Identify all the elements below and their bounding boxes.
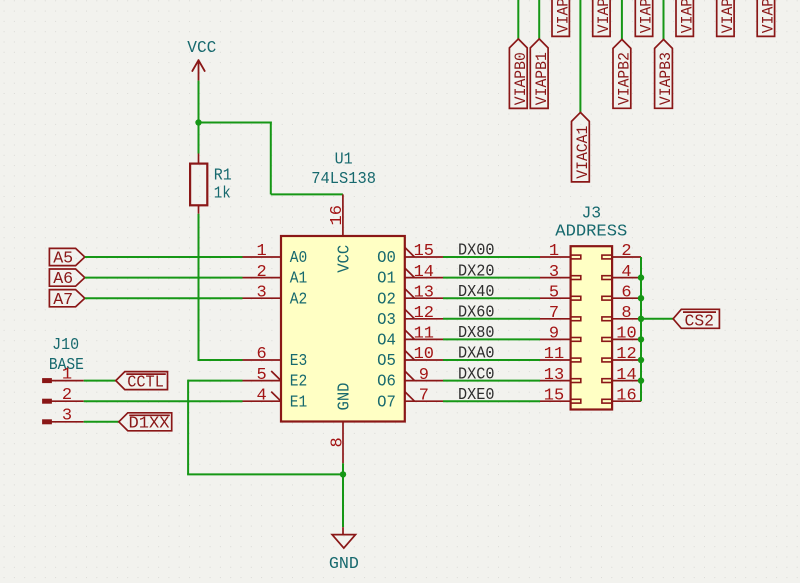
J10 pin 3 <box>43 407 84 426</box>
J3 pin 14 <box>602 366 641 385</box>
wire U1 output to J3 (DX80) <box>443 338 540 340</box>
net label DXA0 <box>458 345 495 364</box>
U1 pin 1 (A0) <box>243 242 282 261</box>
svg-text:A6: A6 <box>53 270 73 289</box>
global label VIAPB3 (cut off at top) <box>676 0 696 36</box>
wire junction to R1 <box>198 123 200 154</box>
wire J10 pin 1 to CCTL <box>84 380 116 382</box>
global label D1XX <box>119 413 172 434</box>
svg-text:13: 13 <box>544 366 564 385</box>
global label VIAPB1 (cut off at top) <box>593 0 613 36</box>
net label DXC0 <box>458 365 495 384</box>
U1 reference label <box>335 151 353 170</box>
svg-text:2: 2 <box>621 242 631 261</box>
svg-text:10: 10 <box>616 325 636 344</box>
svg-text:12: 12 <box>616 345 636 364</box>
global label VIAPB2 (cut off at top) <box>635 0 655 36</box>
net label DX80 <box>458 324 495 343</box>
net label DXE0 <box>458 386 495 405</box>
svg-text:6: 6 <box>256 345 266 364</box>
svg-text:CCTL: CCTL <box>127 374 164 393</box>
svg-text:3: 3 <box>256 283 266 302</box>
svg-text:1: 1 <box>256 242 266 261</box>
ground <box>329 527 359 574</box>
global label VIAPB4 (cut off at top) <box>717 0 737 36</box>
U1 pin 10 (O5) <box>405 345 443 364</box>
J3 pin 12 <box>602 345 641 364</box>
svg-text:4: 4 <box>256 386 266 405</box>
svg-text:16: 16 <box>328 205 347 225</box>
global label A5 <box>49 248 84 268</box>
svg-text:9: 9 <box>549 325 559 344</box>
global label VIAPB5 (cut off at top) <box>757 0 777 36</box>
U1 pin name GND <box>335 383 354 411</box>
svg-text:74LS138: 74LS138 <box>311 170 376 189</box>
svg-text:11: 11 <box>544 345 564 364</box>
wire A7 to U1 <box>85 297 243 299</box>
global label VIACA1 <box>572 112 593 181</box>
wire to VIACA1 <box>579 0 581 112</box>
J10 pin 1 <box>43 365 84 384</box>
U1 pin 5 (E2) <box>243 366 282 385</box>
U1 pin name A2 <box>290 290 308 309</box>
wire U1 output to J3 (DX40) <box>443 297 540 299</box>
wire J3 to CS2 <box>641 318 673 320</box>
wire J10 pin 3 to D1XX <box>84 421 119 423</box>
svg-text:E2: E2 <box>290 373 308 392</box>
wire J10 pin 2 to U1 E1 <box>84 400 243 402</box>
svg-text:O5: O5 <box>377 352 396 371</box>
global label CCTL <box>116 372 168 393</box>
wire to VIAPB3 <box>663 0 665 39</box>
net label DX40 <box>458 283 495 302</box>
svg-text:O2: O2 <box>377 290 396 309</box>
svg-text:DXC0: DXC0 <box>458 365 495 384</box>
net label DX00 <box>458 242 495 261</box>
svg-text:VCC: VCC <box>335 245 354 273</box>
U1 pin 7 (O7) <box>405 386 443 405</box>
wire to VIAPB2 <box>621 0 623 39</box>
svg-text:14: 14 <box>414 263 434 282</box>
svg-text:3: 3 <box>549 263 559 282</box>
U1 pin 14 (O1) <box>405 263 443 282</box>
global label CS2 <box>673 309 719 331</box>
svg-text:7: 7 <box>419 386 429 405</box>
svg-text:7: 7 <box>549 304 559 323</box>
U1 pin name O5 <box>377 352 396 371</box>
wire to VIAPB0 <box>517 0 519 39</box>
svg-text:A7: A7 <box>53 291 73 310</box>
svg-text:9: 9 <box>419 366 429 385</box>
wire J3 right bus vertical <box>640 257 642 401</box>
op-amp U1 74LS138 body <box>281 236 405 422</box>
svg-text:VIAPB2: VIAPB2 <box>638 0 656 33</box>
connector J3 body <box>571 246 613 409</box>
wire VCC branch vertical <box>270 122 272 195</box>
wire GND node to GND symbol <box>342 474 344 527</box>
svg-text:2: 2 <box>256 263 266 282</box>
J3 pin 10 <box>602 325 641 344</box>
U1 pin name A1 <box>290 270 308 289</box>
net label DX60 <box>458 304 495 323</box>
junction J3 pin 12 <box>638 357 644 363</box>
global label VIAPB0 <box>509 39 530 109</box>
net label DX20 <box>458 262 495 281</box>
svg-text:VIAPB0: VIAPB0 <box>512 52 530 105</box>
J3 value label ADDRESS <box>555 222 627 241</box>
svg-text:O7: O7 <box>377 393 396 412</box>
wire A5 to U1 <box>85 256 243 258</box>
J3 pin 8 <box>602 304 641 323</box>
J3 pin 16 <box>602 386 641 405</box>
wire pin 8 to GND node <box>342 463 344 474</box>
svg-text:8: 8 <box>328 437 347 447</box>
wire E2 down vertical <box>187 380 189 475</box>
svg-text:R1: R1 <box>214 167 232 186</box>
wire U1 output to J3 (DX00) <box>443 256 540 258</box>
wire U1 output to J3 (DX60) <box>443 318 540 320</box>
junction VCC node <box>195 119 201 125</box>
svg-text:U1: U1 <box>335 151 353 170</box>
U1 pin 6 (E3) <box>243 345 282 364</box>
U1 pin name E1 <box>290 393 308 412</box>
U1 pin name E2 <box>290 373 308 392</box>
J3 reference label <box>581 204 601 223</box>
svg-text:J3: J3 <box>581 204 601 223</box>
svg-text:O0: O0 <box>377 249 396 268</box>
svg-text:O6: O6 <box>377 373 396 392</box>
svg-text:3: 3 <box>62 407 72 426</box>
svg-text:J10: J10 <box>52 336 79 355</box>
power symbol VCC <box>187 39 216 81</box>
svg-text:ADDRESS: ADDRESS <box>555 222 627 241</box>
svg-text:1: 1 <box>549 242 559 261</box>
R1 reference label <box>214 167 232 186</box>
svg-text:GND: GND <box>335 383 354 411</box>
U1 pin name O3 <box>377 311 396 330</box>
svg-text:DX40: DX40 <box>458 283 495 302</box>
svg-text:8: 8 <box>621 304 631 323</box>
wire U1 output to J3 (DXC0) <box>443 380 540 382</box>
J3 pin 11 <box>540 345 581 364</box>
junction J3 pin 10 <box>638 336 644 342</box>
U1 pin name O7 <box>377 393 396 412</box>
junction J3 pin 8 <box>638 316 644 322</box>
wire to VIAPB1 <box>538 0 540 39</box>
U1 pin 12 (O3) <box>405 304 443 323</box>
U1 pin 2 (A1) <box>243 263 282 282</box>
U1 pin name O2 <box>377 290 396 309</box>
J3 pin 13 <box>540 366 581 385</box>
svg-text:DX00: DX00 <box>458 242 495 261</box>
svg-text:GND: GND <box>329 555 359 574</box>
global label A7 <box>49 290 84 310</box>
wire U1 output to J3 (DXE0) <box>443 400 540 402</box>
svg-text:4: 4 <box>621 263 631 282</box>
svg-text:2: 2 <box>62 386 72 405</box>
svg-text:O4: O4 <box>377 332 396 351</box>
svg-text:15: 15 <box>544 386 564 405</box>
wire R1 to E3 horizontal <box>198 359 243 361</box>
svg-text:VIAPB3: VIAPB3 <box>678 0 696 33</box>
svg-text:DXA0: DXA0 <box>458 345 495 364</box>
resistor R1 <box>190 154 207 214</box>
svg-text:VIAPB0: VIAPB0 <box>554 0 572 33</box>
junction J3 pin 14 <box>638 377 644 383</box>
J3 pin 2 <box>602 242 641 261</box>
J3 pin 1 <box>540 242 581 261</box>
svg-text:VIAPB5: VIAPB5 <box>760 0 778 33</box>
J3 pin 3 <box>540 263 581 282</box>
U1 pin 13 (O2) <box>405 283 443 302</box>
wire E2 horizontal <box>188 380 242 382</box>
U1 pin name O0 <box>377 249 396 268</box>
svg-text:O1: O1 <box>377 270 396 289</box>
svg-text:14: 14 <box>616 366 636 385</box>
U1 pin 3 (A2) <box>243 283 282 302</box>
svg-text:VIAPB4: VIAPB4 <box>719 0 737 33</box>
global label VIAPB2 <box>613 39 634 108</box>
svg-text:1: 1 <box>62 365 72 384</box>
wire U1 output to J3 (DX20) <box>443 277 540 279</box>
J3 pin 9 <box>540 325 581 344</box>
U1 pin name VCC <box>335 245 354 273</box>
J3 pin 6 <box>602 283 641 302</box>
wire E2 to GND node horizontal <box>187 473 343 475</box>
global label VIAPB3 <box>655 39 676 108</box>
U1 pin 15 (O0) <box>405 242 443 261</box>
J3 pin 4 <box>602 263 641 282</box>
svg-text:E3: E3 <box>290 352 308 371</box>
svg-text:A5: A5 <box>53 250 73 269</box>
U1 pin 11 (O4) <box>405 325 443 344</box>
svg-text:A0: A0 <box>290 249 308 268</box>
svg-text:VIACA1: VIACA1 <box>574 126 592 179</box>
J10 reference label <box>52 336 79 355</box>
svg-text:A1: A1 <box>290 270 308 289</box>
U1 value label 74LS138 <box>311 170 376 189</box>
wire A6 to U1 <box>85 277 243 279</box>
R1 value label 1k <box>214 185 231 204</box>
wire VCC branch to pin 16 <box>271 193 343 195</box>
U1 pin name O1 <box>377 270 396 289</box>
svg-text:VIAPB3: VIAPB3 <box>657 52 675 105</box>
wire U1 output to J3 (DXA0) <box>443 359 540 361</box>
global label VIAPB1 <box>530 39 551 109</box>
svg-text:VIAPB2: VIAPB2 <box>616 52 634 105</box>
svg-text:DX20: DX20 <box>458 262 495 281</box>
svg-text:DXE0: DXE0 <box>458 386 495 405</box>
U1 pin name O6 <box>377 373 396 392</box>
svg-text:DX80: DX80 <box>458 324 495 343</box>
global label VIAPB0 (cut off at top) <box>552 0 572 36</box>
J3 pin 7 <box>540 304 581 323</box>
svg-text:10: 10 <box>414 345 434 364</box>
J3 pin 15 <box>540 386 581 405</box>
U1 pin name A0 <box>290 249 308 268</box>
U1 pin 4 (E1) <box>243 386 282 405</box>
U1 pin 9 (O6) <box>405 366 443 385</box>
U1 pin name O4 <box>377 332 396 351</box>
svg-text:11: 11 <box>414 325 434 344</box>
global label A6 <box>49 269 84 289</box>
svg-text:15: 15 <box>414 242 434 261</box>
svg-text:16: 16 <box>616 386 636 405</box>
wire R1 to E3 vertical <box>198 214 200 360</box>
U1 pin 8 (GND) <box>328 422 347 464</box>
svg-text:VIAPB1: VIAPB1 <box>533 52 551 105</box>
wire VCC to junction <box>198 81 200 123</box>
wire VCC branch horizontal <box>198 122 272 124</box>
junction J3 pin 4 <box>638 274 644 280</box>
svg-text:6: 6 <box>621 283 631 302</box>
svg-text:E1: E1 <box>290 393 308 412</box>
junction J3 pin 6 <box>638 295 644 301</box>
svg-text:13: 13 <box>414 283 434 302</box>
J10 pin 2 <box>43 386 84 405</box>
svg-text:VCC: VCC <box>187 39 216 58</box>
svg-text:VIAPB1: VIAPB1 <box>595 0 613 33</box>
svg-text:CS2: CS2 <box>685 313 715 332</box>
U1 pin 16 (VCC) <box>328 194 347 236</box>
J3 pin 5 <box>540 283 581 302</box>
svg-text:DX60: DX60 <box>458 304 495 323</box>
junction GND node <box>340 471 346 477</box>
U1 pin name E3 <box>290 352 308 371</box>
svg-text:A2: A2 <box>290 290 308 309</box>
svg-text:O3: O3 <box>377 311 396 330</box>
svg-text:12: 12 <box>414 304 434 323</box>
J10 value label BASE <box>49 356 84 375</box>
svg-text:5: 5 <box>549 283 559 302</box>
svg-text:D1XX: D1XX <box>129 415 170 434</box>
svg-text:5: 5 <box>256 366 266 385</box>
svg-text:1k: 1k <box>214 185 231 204</box>
